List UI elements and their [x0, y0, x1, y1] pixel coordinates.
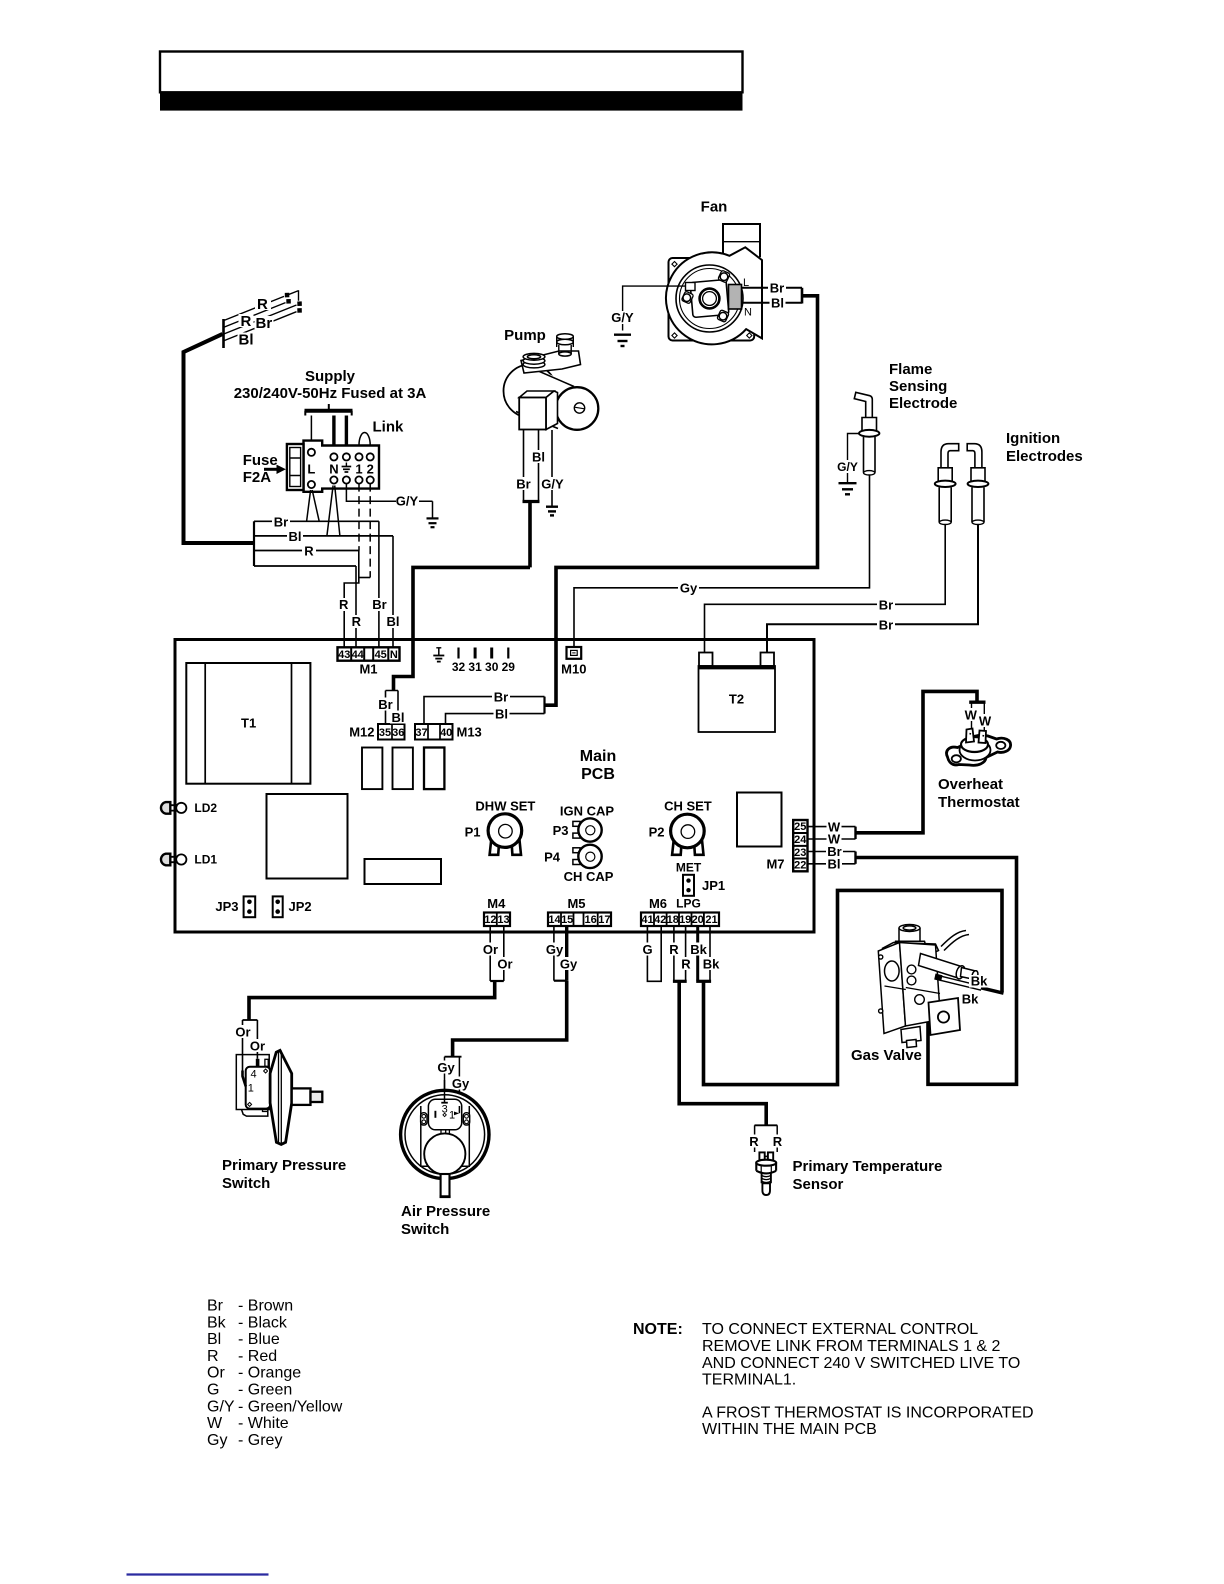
- svg-text:G/Y: G/Y: [207, 1398, 235, 1415]
- wire N supply: [332, 416, 335, 447]
- svg-text:Or: Or: [235, 1024, 250, 1039]
- pin 31: [474, 648, 477, 659]
- svg-text:Overheat: Overheat: [938, 776, 1003, 793]
- junction sensor R bracket: [755, 1124, 778, 1126]
- terminal M10: [567, 647, 582, 659]
- potentiometer P2 CH SET: [649, 799, 712, 855]
- pump: [504, 327, 599, 430]
- svg-text:A FROST THERMOSTAT IS INCORPOR: A FROST THERMOSTAT IS INCORPORATED: [702, 1405, 1034, 1422]
- svg-text:M12: M12: [349, 725, 374, 740]
- svg-text:Bk: Bk: [962, 991, 979, 1006]
- svg-text:JP3: JP3: [215, 899, 238, 914]
- svg-text:13: 13: [497, 914, 509, 926]
- wire pump Bl: [538, 430, 540, 502]
- link G M6-41 to M6-42: [647, 926, 661, 981]
- svg-text:R: R: [669, 942, 679, 957]
- svg-text:Bk: Bk: [703, 956, 720, 971]
- svg-text:- Blue: - Blue: [238, 1331, 280, 1348]
- svg-text:1: 1: [449, 1110, 455, 1122]
- wire R2 bus: [254, 565, 356, 567]
- svg-text:N: N: [329, 462, 338, 477]
- svg-text:R: R: [304, 544, 314, 559]
- svg-text:M10: M10: [561, 662, 586, 677]
- svg-text:Gas Valve: Gas Valve: [851, 1047, 922, 1064]
- relay 3: [424, 748, 444, 790]
- svg-text:M7: M7: [766, 857, 784, 872]
- wire Bl bus: [254, 535, 393, 537]
- svg-text:Bl: Bl: [239, 332, 254, 349]
- trimmer P3 IGN CAP: [553, 804, 615, 842]
- wire M5-14 Gy: [553, 926, 555, 981]
- svg-text:T2: T2: [729, 692, 744, 707]
- svg-text:40: 40: [440, 727, 452, 739]
- svg-text:35: 35: [379, 727, 391, 739]
- svg-text:21: 21: [705, 914, 717, 926]
- svg-text:Switch: Switch: [222, 1175, 270, 1192]
- svg-text:Fan: Fan: [701, 199, 728, 216]
- junction bracket: [253, 521, 255, 566]
- gas valve: [878, 925, 982, 1048]
- svg-text:Br: Br: [274, 514, 288, 529]
- svg-text:R: R: [257, 296, 268, 313]
- svg-text:MET: MET: [676, 861, 702, 875]
- wire Br to M12-35: [386, 691, 399, 725]
- wire Br T2 to left electrode: [705, 524, 946, 653]
- svg-text:Gy: Gy: [680, 580, 698, 595]
- svg-text:R: R: [207, 1348, 219, 1365]
- svg-text:LD1: LD1: [194, 853, 217, 867]
- wire R to sensor right: [776, 1125, 778, 1152]
- wire fan pair to PCB: [544, 296, 818, 705]
- wire N to Bl pair: [327, 486, 340, 536]
- primary pressure switch: [236, 1050, 322, 1144]
- svg-text:TERMINAL1.: TERMINAL1.: [702, 1372, 796, 1389]
- svg-text:Electrode: Electrode: [889, 395, 957, 412]
- svg-text:JP2: JP2: [289, 899, 312, 914]
- wire Br to M13-37: [424, 697, 545, 724]
- svg-text:REMOVE LINK FROM TERMINALS 1 &: REMOVE LINK FROM TERMINALS 1 & 2: [702, 1338, 1001, 1355]
- svg-text:G/Y: G/Y: [396, 494, 419, 509]
- svg-text:4: 4: [250, 1069, 256, 1081]
- junction pump pair: [523, 500, 540, 503]
- svg-text:CH SET: CH SET: [664, 799, 712, 814]
- wire Br T2 to right electrode: [767, 524, 978, 653]
- wire to M1-45: [378, 521, 380, 648]
- svg-text:M1: M1: [359, 662, 377, 677]
- wire Gy M10 to flame electrode: [574, 475, 870, 647]
- svg-text:Bl: Bl: [387, 614, 400, 629]
- air pressure switch: [401, 1080, 489, 1197]
- svg-text:- Orange: - Orange: [238, 1365, 301, 1382]
- svg-text:20: 20: [692, 914, 704, 926]
- wire Gy to air switch 1: [458, 1057, 460, 1114]
- terminal block M12: [378, 724, 405, 740]
- terminal block M1: [338, 647, 400, 660]
- wire to M1-44: [355, 566, 357, 648]
- supply terminal block: [304, 441, 380, 492]
- title box: [160, 52, 743, 93]
- svg-text:Gy: Gy: [452, 1076, 470, 1091]
- wire M7-22 Bl: [808, 863, 856, 865]
- svg-text:M4: M4: [487, 896, 506, 911]
- svg-text:Switch: Switch: [401, 1221, 449, 1238]
- wire R pair to temperature sensor: [679, 981, 766, 1125]
- svg-text:Bl: Bl: [771, 295, 784, 310]
- svg-text:Electrodes: Electrodes: [1006, 448, 1083, 465]
- ground symbol supply earth: [427, 518, 439, 527]
- junction Br-Bl pair: [854, 852, 856, 864]
- svg-text:G/Y: G/Y: [541, 476, 564, 491]
- terminal block M13: [415, 724, 453, 740]
- svg-text:G: G: [207, 1382, 219, 1399]
- wire M5-15 Gy thick: [565, 926, 568, 981]
- wire M7 pair to gas valve: [855, 858, 1017, 1085]
- svg-text:24: 24: [794, 834, 807, 846]
- wire terminal2 dashed: [369, 484, 371, 578]
- svg-text:JP1: JP1: [702, 878, 725, 893]
- wire M6-21 Bk: [709, 926, 711, 981]
- svg-text:T1: T1: [241, 716, 256, 731]
- junction R pair: [673, 980, 687, 983]
- svg-text:44: 44: [352, 649, 365, 661]
- svg-text:M13: M13: [457, 725, 482, 740]
- svg-text:R: R: [241, 313, 252, 330]
- svg-text:WITHIN THE MAIN PCB: WITHIN THE MAIN PCB: [702, 1421, 877, 1438]
- wire conductor R2: [224, 303, 286, 328]
- svg-text:12: 12: [484, 914, 496, 926]
- wire to M1-N: [392, 536, 394, 648]
- svg-text:Primary Temperature: Primary Temperature: [793, 1158, 943, 1175]
- svg-text:F2A: F2A: [243, 469, 272, 486]
- mains supply cable: [222, 319, 225, 348]
- svg-text:M6: M6: [649, 896, 667, 911]
- svg-text:R: R: [352, 614, 362, 629]
- junction Gy pair: [554, 980, 567, 982]
- svg-text:P4: P4: [544, 850, 561, 865]
- terminal block M7: [793, 820, 807, 871]
- wire pump pair to M12: [394, 502, 531, 691]
- transformer T1: [186, 663, 310, 784]
- svg-text:P2: P2: [649, 825, 665, 840]
- svg-text:22: 22: [794, 860, 806, 872]
- Main PCB board: [175, 640, 814, 933]
- svg-text:Bl: Bl: [207, 1331, 221, 1348]
- pin 29: [507, 648, 509, 659]
- wire Bk diagonal into valve: [981, 988, 1004, 993]
- svg-text:Bl: Bl: [289, 529, 302, 544]
- junction switch Or bracket: [243, 1019, 258, 1021]
- svg-text:Air Pressure: Air Pressure: [401, 1203, 490, 1220]
- svg-text:25: 25: [794, 821, 806, 833]
- svg-text:AND CONNECT 240 V SWITCHED LIV: AND CONNECT 240 V SWITCHED LIVE TO: [702, 1355, 1020, 1372]
- svg-text:14: 14: [548, 914, 561, 926]
- wire fan Bl: [742, 302, 803, 304]
- wire Or to switch terminal 4: [256, 1020, 258, 1059]
- svg-text:32: 32: [452, 660, 466, 674]
- wire M4-12 Or: [489, 926, 491, 981]
- svg-text:R: R: [681, 956, 691, 971]
- svg-text:Or: Or: [497, 956, 512, 971]
- footer rule: [127, 1573, 269, 1575]
- wire R bus: [254, 550, 359, 552]
- wire W right: [983, 702, 985, 736]
- wire conductor R1: [224, 290, 299, 320]
- component box bottom: [365, 859, 442, 884]
- svg-text:Br: Br: [256, 315, 273, 332]
- wire M6-19 R: [685, 926, 687, 981]
- ignition electrode left: [935, 444, 959, 525]
- ground symbol flame electrode: [839, 483, 857, 494]
- svg-text:Br: Br: [879, 617, 893, 632]
- terminal block M4: [484, 913, 510, 927]
- svg-text:P1: P1: [465, 825, 481, 840]
- wire Br bus: [254, 520, 379, 522]
- wire supply lead: [184, 334, 255, 543]
- svg-text:Bl: Bl: [828, 857, 841, 872]
- svg-text:Gy: Gy: [546, 942, 564, 957]
- svg-text:NOTE:: NOTE:: [633, 1321, 683, 1338]
- junction fan pair: [801, 288, 804, 304]
- wire R to sensor left: [754, 1125, 756, 1152]
- svg-text:- Green: - Green: [238, 1382, 292, 1399]
- ground symbol fan: [614, 335, 631, 346]
- svg-text:- Red: - Red: [238, 1348, 277, 1365]
- junction air switch Gy bracket: [445, 1056, 462, 1058]
- svg-text:LD2: LD2: [194, 801, 217, 815]
- svg-text:LPG: LPG: [676, 897, 701, 911]
- wire M6-20 Bk thick: [696, 926, 699, 981]
- wire W left: [971, 702, 973, 728]
- svg-text:W: W: [965, 707, 978, 722]
- wire L supply: [310, 416, 312, 442]
- svg-text:- Grey: - Grey: [238, 1432, 282, 1449]
- junction W pair: [854, 827, 856, 839]
- svg-text:N: N: [744, 307, 752, 319]
- svg-text:Bk: Bk: [690, 942, 707, 957]
- svg-text:Sensing: Sensing: [889, 378, 947, 395]
- svg-text:1: 1: [355, 462, 362, 477]
- svg-text:Fuse: Fuse: [243, 452, 278, 469]
- svg-text:Bk: Bk: [207, 1314, 227, 1331]
- svg-text:2: 2: [367, 462, 374, 477]
- svg-text:Supply: Supply: [305, 368, 356, 385]
- svg-text:N: N: [390, 649, 398, 661]
- svg-text:R: R: [749, 1134, 759, 1149]
- transformer T2: [699, 653, 776, 733]
- svg-text:G/Y: G/Y: [837, 460, 858, 474]
- wire Bl to M12-36: [397, 691, 399, 725]
- svg-text:- White: - White: [238, 1415, 289, 1432]
- ignition electrode right: [967, 444, 988, 525]
- wire M7-24 W: [808, 838, 856, 840]
- wire jog terminal2: [359, 577, 370, 579]
- wire Bk pair to gas valve: [704, 890, 1003, 1084]
- pin 32: [457, 648, 459, 659]
- wire M4-13 Or: [503, 926, 505, 981]
- svg-text:Br: Br: [516, 476, 530, 491]
- junction Bk pair: [696, 980, 711, 983]
- link jumper: [359, 433, 370, 446]
- terminal pins supply: [308, 449, 374, 488]
- relay 1: [362, 748, 382, 790]
- jumper JP2: [273, 896, 312, 917]
- wire terminal1 dashed: [358, 484, 360, 551]
- svg-text:37: 37: [415, 727, 427, 739]
- svg-text:30: 30: [485, 660, 499, 674]
- wire fan G/Y to ground: [623, 286, 686, 330]
- wire to M1-43: [344, 551, 359, 649]
- svg-text:Gy: Gy: [437, 1060, 455, 1075]
- svg-text:43: 43: [338, 649, 350, 661]
- svg-text:Br: Br: [207, 1298, 224, 1315]
- svg-text:R: R: [773, 1134, 783, 1149]
- trimmer P4 CH CAP: [544, 845, 614, 884]
- LED LD2: [161, 801, 217, 815]
- svg-text:W: W: [207, 1415, 223, 1432]
- svg-text:DHW SET: DHW SET: [475, 799, 535, 814]
- svg-text:L: L: [307, 462, 315, 477]
- svg-text:Br: Br: [494, 689, 508, 704]
- wire flame electrode G/Y: [848, 434, 860, 483]
- ground symbol pump: [546, 507, 558, 516]
- svg-text:Bl: Bl: [532, 449, 545, 464]
- junction thermostat W bracket: [969, 701, 985, 704]
- fan: [666, 199, 762, 345]
- terminal block M6: [641, 913, 719, 927]
- svg-text:TO CONNECT EXTERNAL CONTROL: TO CONNECT EXTERNAL CONTROL: [702, 1321, 978, 1338]
- svg-text:19: 19: [679, 914, 691, 926]
- svg-text:29: 29: [502, 660, 516, 674]
- svg-text:Bl: Bl: [392, 710, 405, 725]
- svg-text:Flame: Flame: [889, 361, 932, 378]
- svg-text:Ignition: Ignition: [1006, 430, 1060, 447]
- svg-text:Br: Br: [879, 597, 893, 612]
- component box right of P2: [737, 793, 782, 847]
- wire conductor Br: [224, 305, 297, 334]
- svg-text:Or: Or: [250, 1038, 265, 1053]
- svg-text:Bk: Bk: [971, 974, 988, 989]
- svg-text:IGN CAP: IGN CAP: [560, 804, 615, 819]
- svg-text:Gy: Gy: [560, 956, 578, 971]
- svg-text:PCB: PCB: [581, 766, 615, 783]
- svg-text:Br: Br: [770, 280, 784, 295]
- svg-text:R: R: [339, 597, 349, 612]
- svg-text:Thermostat: Thermostat: [938, 794, 1020, 811]
- wire M6-18 R: [673, 926, 675, 981]
- wire M7-23 Br: [808, 851, 856, 853]
- svg-text:Link: Link: [373, 419, 404, 436]
- svg-text:23: 23: [794, 847, 806, 859]
- wire L to Br pair: [307, 490, 320, 521]
- fuse F2A: [287, 444, 304, 490]
- svg-text:45: 45: [375, 649, 387, 661]
- svg-text:1: 1: [248, 1083, 254, 1095]
- svg-text:16: 16: [584, 914, 596, 926]
- wire Bl to M13-40: [446, 714, 545, 724]
- svg-text:G/Y: G/Y: [611, 310, 634, 325]
- svg-text:36: 36: [392, 727, 404, 739]
- svg-text:42: 42: [654, 914, 666, 926]
- title bar: [160, 92, 743, 110]
- pin 30: [490, 648, 493, 659]
- wire conductor Bl: [224, 312, 297, 341]
- terminal block M5: [548, 913, 611, 927]
- svg-text:41: 41: [641, 914, 653, 926]
- wire Or pair to primary pressure switch: [249, 981, 495, 1020]
- svg-text:18: 18: [667, 914, 679, 926]
- wire fan Br: [742, 287, 803, 289]
- svg-text:31: 31: [468, 660, 482, 674]
- LED LD1: [161, 853, 217, 867]
- svg-text:15: 15: [561, 914, 573, 926]
- svg-text:17: 17: [598, 914, 610, 926]
- junction Br-Bl fork: [543, 697, 545, 714]
- svg-text:CH CAP: CH CAP: [564, 869, 614, 884]
- wire earth to G/Y: [346, 484, 432, 518]
- svg-text:Main: Main: [580, 748, 616, 765]
- svg-text:Br: Br: [372, 597, 386, 612]
- wire pump G/Y: [551, 430, 553, 506]
- svg-text:G: G: [642, 942, 652, 957]
- svg-text:W: W: [979, 713, 992, 728]
- svg-text:Pump: Pump: [504, 327, 546, 344]
- svg-text:P3: P3: [553, 823, 569, 838]
- overheat thermostat: [947, 729, 1011, 766]
- flame sensing electrode: [854, 361, 957, 475]
- jumper JP3: [215, 896, 255, 917]
- svg-text:Gy: Gy: [207, 1432, 227, 1449]
- svg-text:- Brown: - Brown: [238, 1298, 293, 1315]
- wire earth supply: [345, 416, 348, 447]
- wire W pair to overheat thermostat: [855, 691, 977, 832]
- svg-text:Or: Or: [207, 1365, 225, 1382]
- junction Or pair: [490, 980, 504, 982]
- svg-text:Or: Or: [483, 942, 498, 957]
- legend colour codes: [207, 1298, 343, 1449]
- wire Or to switch terminal 1: [242, 1020, 244, 1076]
- potentiometer P1 DHW SET: [465, 799, 536, 855]
- wire M7-25 W: [808, 826, 856, 828]
- wire pump Br: [523, 430, 525, 502]
- wire Gy pair to air pressure switch: [453, 981, 567, 1057]
- jumper JP1: [676, 861, 725, 911]
- primary temperature sensor: [756, 1152, 776, 1195]
- svg-text:Sensor: Sensor: [793, 1176, 844, 1193]
- wire Gy to air switch 3: [444, 1057, 446, 1103]
- svg-text:M5: M5: [567, 896, 585, 911]
- relay 2: [393, 748, 413, 790]
- svg-text:- Black: - Black: [238, 1314, 288, 1331]
- svg-text:Primary Pressure: Primary Pressure: [222, 1157, 346, 1174]
- ground pin PCB: [433, 648, 444, 662]
- IC box: [267, 794, 348, 879]
- svg-text:- Green/Yellow: - Green/Yellow: [238, 1398, 343, 1415]
- svg-text:Bl: Bl: [495, 706, 508, 721]
- svg-text:230/240V-50Hz Fused at 3A: 230/240V-50Hz Fused at 3A: [234, 385, 427, 402]
